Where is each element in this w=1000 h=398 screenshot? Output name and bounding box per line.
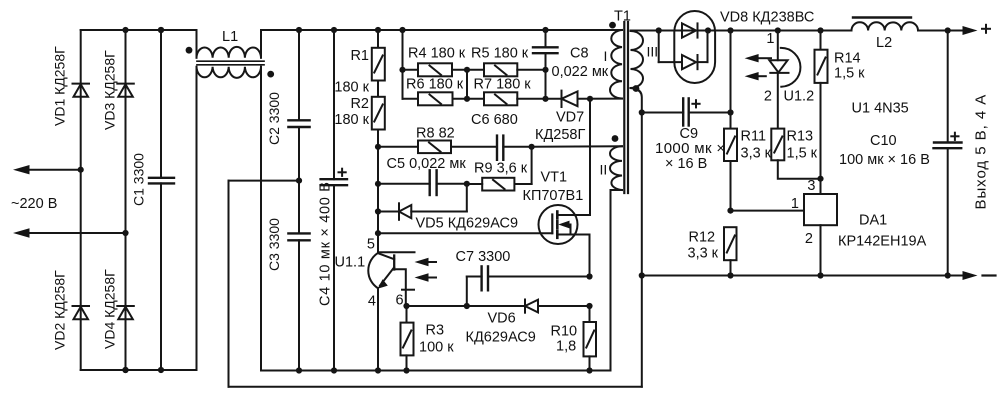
T1 winding I xyxy=(609,22,622,99)
wire AC input lower xyxy=(13,228,129,237)
resistor R13 xyxy=(771,129,820,179)
svg-text:R11: R11 xyxy=(741,129,767,145)
U1.1 light arrows xyxy=(415,258,437,282)
opto-LED U1.2 xyxy=(769,31,800,129)
wire R4/R6 left rail xyxy=(399,30,405,99)
svg-text:L1: L1 xyxy=(222,29,238,45)
wire VD1/VD2 column xyxy=(80,30,82,370)
svg-text:C2 3300: C2 3300 xyxy=(266,92,282,145)
svg-text:VD8 КД238ВС: VD8 КД238ВС xyxy=(720,10,814,26)
svg-text:I: I xyxy=(604,48,608,64)
wire outer bottom xyxy=(229,386,642,388)
transformer T1 core xyxy=(624,22,628,193)
svg-text:T1: T1 xyxy=(614,9,631,25)
svg-text:6: 6 xyxy=(396,293,404,309)
svg-text:R12: R12 xyxy=(689,230,716,246)
capacitor C2 xyxy=(288,30,309,233)
svg-text:R9 3,6 к: R9 3,6 к xyxy=(474,161,528,177)
svg-text:100 к: 100 к xyxy=(419,340,454,356)
svg-text:~220 В: ~220 В xyxy=(11,196,57,212)
wire bridge bottom xyxy=(81,367,197,373)
svg-text:II: II xyxy=(600,162,608,178)
svg-text:1,8: 1,8 xyxy=(556,339,576,355)
svg-text:L2: L2 xyxy=(876,35,892,51)
resistor R8 xyxy=(375,141,497,154)
svg-text:3: 3 xyxy=(807,178,815,194)
svg-text:VD6: VD6 xyxy=(488,311,516,327)
svg-text:1000 мк ×: 1000 мк × xyxy=(655,140,726,157)
svg-text:3,3 к: 3,3 к xyxy=(741,146,772,162)
resistor R7 xyxy=(467,92,546,105)
svg-text:U1.2: U1.2 xyxy=(784,89,815,105)
wire top bus middle xyxy=(261,27,622,33)
svg-text:× 16 В: × 16 В xyxy=(665,156,707,172)
opto-transistor U1.1 xyxy=(368,233,414,373)
svg-text:R13: R13 xyxy=(787,129,814,145)
svg-text:R2: R2 xyxy=(350,96,369,112)
svg-text:0,022 мк: 0,022 мк xyxy=(552,64,609,80)
wire VD7 to drain xyxy=(589,99,591,215)
diode VD3 xyxy=(117,84,134,97)
svg-text:VD4 КД258Г: VD4 КД258Г xyxy=(102,269,118,349)
svg-text:КД258Г: КД258Г xyxy=(535,127,585,143)
wire VD3/VD4 column xyxy=(122,27,128,373)
wire secondary bottom bus xyxy=(642,271,978,280)
svg-text:U1 4N35: U1 4N35 xyxy=(852,101,909,117)
svg-text:C4 10 мк × 400 В: C4 10 мк × 400 В xyxy=(318,181,334,306)
svg-text:5: 5 xyxy=(367,237,375,253)
T1 winding III xyxy=(631,31,644,92)
svg-text:R14: R14 xyxy=(834,51,861,67)
resistor R12 xyxy=(724,227,737,278)
svg-text:2: 2 xyxy=(805,231,813,247)
svg-text:C1 3300: C1 3300 xyxy=(131,153,147,206)
resistor R4 xyxy=(403,63,468,76)
U1.2 light arrows xyxy=(745,54,771,80)
resistor R3 xyxy=(401,306,414,374)
svg-text:VD1 КД258Г: VD1 КД258Г xyxy=(52,46,68,126)
wire AC input upper xyxy=(13,165,84,174)
svg-text:1,5 к: 1,5 к xyxy=(834,66,865,82)
svg-text:R10: R10 xyxy=(551,324,578,340)
svg-text:R3: R3 xyxy=(426,323,445,339)
wire base/VD6 row xyxy=(403,303,525,309)
svg-text:1,5 к: 1,5 к xyxy=(787,146,818,162)
capacitor C4 xyxy=(321,30,347,374)
inductor L1 xyxy=(186,30,275,371)
svg-text:VD5 КД629АС9: VD5 КД629АС9 xyxy=(416,216,519,232)
svg-text:КД629АС9: КД629АС9 xyxy=(466,330,536,346)
svg-text:R7 180 к: R7 180 к xyxy=(474,77,532,93)
capacitor C1 xyxy=(149,27,174,370)
svg-text:R5 180 к: R5 180 к xyxy=(471,46,529,62)
capacitor C9 xyxy=(642,98,734,125)
dual diode VD8 xyxy=(659,11,715,83)
diode VD6 xyxy=(525,300,593,313)
svg-text:U1.1: U1.1 xyxy=(335,255,366,271)
capacitor C7 xyxy=(467,266,593,306)
resistor R6 xyxy=(403,92,468,105)
capacitor C6 xyxy=(497,136,535,160)
wire inner bottom bus xyxy=(261,190,622,371)
resistor R14 xyxy=(815,31,828,195)
svg-text:R4 180 к: R4 180 к xyxy=(408,46,466,62)
diode VD7 xyxy=(546,91,623,107)
capacitor C3 xyxy=(288,178,309,374)
svg-text:180 к: 180 к xyxy=(334,112,369,128)
svg-text:C6 680: C6 680 xyxy=(471,112,518,128)
wire gate drive xyxy=(375,230,552,236)
svg-text:C3 3300: C3 3300 xyxy=(266,218,282,271)
IC DA1 xyxy=(731,194,838,279)
svg-text:1: 1 xyxy=(791,196,799,212)
svg-text:III: III xyxy=(647,44,659,60)
inductor L2 xyxy=(852,18,919,31)
label + output xyxy=(982,25,990,33)
capacitor C10 xyxy=(934,31,962,279)
wire R4R6-R5R7 junction xyxy=(464,67,470,102)
svg-text:C7 3300: C7 3300 xyxy=(456,249,511,265)
resistor R5 xyxy=(467,63,546,76)
resistor R2 xyxy=(372,81,385,234)
svg-text:R6 180 к: R6 180 к xyxy=(406,77,464,93)
svg-text:R1: R1 xyxy=(350,48,369,64)
svg-text:VD7: VD7 xyxy=(556,110,584,126)
svg-text:VT1: VT1 xyxy=(541,170,568,186)
wire winding III bottom drop xyxy=(631,88,645,387)
resistor R10 xyxy=(584,306,597,374)
T1 winding II xyxy=(610,135,622,190)
diode VD4 xyxy=(117,306,134,319)
svg-text:2: 2 xyxy=(764,89,772,105)
svg-text:VD3 КД258Г: VD3 КД258Г xyxy=(102,50,118,130)
resistor R1 xyxy=(372,30,385,81)
svg-text:C8: C8 xyxy=(570,46,589,62)
transistor VT1 xyxy=(539,205,591,277)
resistor R11 xyxy=(724,31,737,214)
svg-text:R8 82: R8 82 xyxy=(416,126,455,142)
svg-text:3,3 к: 3,3 к xyxy=(688,246,719,262)
svg-text:КП707В1: КП707В1 xyxy=(523,188,584,204)
diode VD5 xyxy=(375,184,467,220)
wire secondary top bus xyxy=(631,26,978,35)
wire C2/C3 midpoint to outer bottom xyxy=(229,180,300,182)
svg-text:1: 1 xyxy=(766,31,774,47)
diode VD1 xyxy=(73,84,90,97)
resistor R9 xyxy=(467,147,532,191)
wire C6 to winding II xyxy=(532,145,622,148)
svg-text:КР142ЕН19А: КР142ЕН19А xyxy=(838,234,927,250)
capacitor C8 xyxy=(533,30,558,102)
svg-text:100 мк × 16 В: 100 мк × 16 В xyxy=(839,152,930,168)
wire top bus left xyxy=(81,27,197,33)
svg-text:C10: C10 xyxy=(870,133,897,149)
label − output xyxy=(983,274,996,276)
svg-text:180 к: 180 к xyxy=(334,80,369,96)
diode VD2 xyxy=(73,306,90,319)
capacitor C5 xyxy=(375,170,470,195)
svg-text:Выход 5 В, 4 А: Выход 5 В, 4 А xyxy=(973,94,990,210)
svg-text:VD2 КД258Г: VD2 КД258Г xyxy=(52,270,68,350)
svg-text:4: 4 xyxy=(368,294,376,310)
svg-text:DA1: DA1 xyxy=(859,213,887,229)
svg-text:C5 0,022 мк: C5 0,022 мк xyxy=(387,156,467,172)
